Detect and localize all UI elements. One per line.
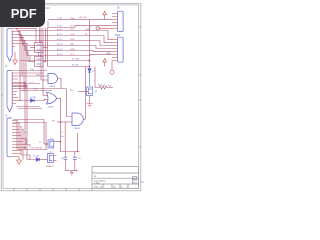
svg-text:A_D1: A_D1 [57, 33, 63, 36]
svg-text:A_D3: A_D3 [57, 43, 63, 46]
svg-text:TDO: TDO [70, 29, 75, 31]
wire top net to J8 pin3 [48, 18, 112, 20]
svg-text:R14 1k: R14 1k [98, 85, 106, 87]
connector J8 pin stubs [112, 14, 118, 29]
sheet border zone ticks bottom [14, 188, 92, 191]
transistor Q2 base wire [40, 159, 48, 161]
sheet border inner frame [3, 5, 139, 188]
component Y1 internals [37, 45, 42, 50]
vertical bus drop E [47, 21, 49, 28]
svg-text:,: , [94, 171, 95, 173]
ground GND3 under caps [70, 172, 74, 175]
svg-text:TCK: TCK [70, 34, 75, 36]
wire second top net [48, 25, 112, 27]
wire ground stub [71, 171, 73, 173]
svg-text:5_30: 5_30 [57, 18, 63, 20]
svg-text:Q5: Q5 [94, 91, 98, 93]
gate U2A (AND) [48, 74, 58, 84]
bus wire W2 [19, 36, 112, 43]
svg-text:A4: A4 [141, 181, 145, 184]
wire cap rail top [61, 151, 80, 153]
svg-text:VCC: VCC [70, 54, 75, 56]
svg-text:C5: C5 [60, 158, 64, 160]
svg-text:TDI: TDI [70, 26, 74, 28]
junction dot Q1 collector [60, 141, 61, 142]
capacitor C6 [73, 157, 77, 159]
wire gate1 input1 [22, 75, 48, 77]
svg-text:RX: RX [108, 86, 112, 88]
capacitor C5 [63, 157, 67, 159]
labels bus wires maroon [70, 29, 91, 56]
svg-text:U10: U10 [46, 8, 51, 10]
wire gate2 in1 feed [43, 95, 44, 97]
connector J2 pin stubs [12, 73, 27, 104]
junction dot cap rail [77, 151, 78, 152]
wire Y1-Y2 link [38, 53, 40, 57]
node NC circle on J8 pin6 [96, 27, 112, 30]
svg-text:File: sch: File: sch [94, 187, 103, 189]
connector J3 pin stubs [12, 121, 30, 157]
wire under badge y28.3 [16, 27, 36, 29]
wire net y106 row [16, 106, 40, 108]
PDF badge overlay [0, 0, 45, 27]
MOSFET Q3 gate wire [78, 91, 86, 93]
resistor R14 [95, 67, 113, 90]
wire row y73 [17, 72, 44, 74]
svg-text:J8: J8 [117, 8, 120, 10]
svg-text:1 Doc: 1 Doc [94, 183, 101, 185]
svg-text:D 330: D 330 [30, 97, 37, 99]
wire J3 branch 1 [25, 139, 27, 145]
ground under J3 [17, 157, 22, 165]
transistor Q2 [48, 154, 54, 163]
vertical net line x20 [19, 31, 21, 101]
vertical bus drop D [42, 28, 44, 96]
svg-text:D1: D1 [93, 71, 97, 73]
junction squares J1 pins [16, 28, 27, 44]
svg-text:A_D4: A_D4 [57, 48, 63, 51]
vertical bus drop G [47, 28, 49, 67]
wire vertical to cap rail right [77, 133, 79, 152]
component Y1 box [30, 43, 48, 53]
svg-text:A_D2: A_D2 [57, 38, 63, 41]
capacitor C5 leads [64, 152, 66, 171]
svg-text:GND: GND [106, 53, 111, 55]
svg-text:5_30: 5_30 [57, 26, 63, 28]
wire J3 comb v3 [21, 127, 30, 160]
wire LED net y90.5 [20, 90, 52, 92]
vertical net line x22 [21, 36, 23, 77]
power flag VCC1 [103, 11, 107, 19]
diode D4 (vertical) [88, 69, 91, 87]
gate U2C (AND big) [72, 113, 83, 126]
svg-text:GND: GND [70, 49, 75, 51]
title block text rows [94, 171, 138, 189]
diode D2 [36, 158, 40, 162]
svg-text:74F08: 74F08 [48, 106, 55, 108]
vertical net line x24 [23, 41, 25, 91]
svg-text:TMS: TMS [70, 18, 75, 20]
svg-text:D 10R: D 10R [33, 155, 40, 157]
wire row y83.5 [12, 83, 40, 85]
transistor Q1 base wire [44, 143, 48, 145]
vertical net line x28 [27, 51, 29, 62]
vertical net line x26 [25, 46, 27, 89]
wire J3 net y144.5 [29, 145, 31, 148]
svg-text:RX: RX [70, 90, 74, 92]
sheet border outer frame [1, 3, 141, 191]
vertical net x25 to J3 zone [24, 83, 26, 150]
wire Q3 source down [89, 96, 91, 104]
connector J1 (left top header) [7, 29, 12, 62]
wire J3 comb v4 [22, 130, 24, 160]
svg-text:MMBT2: MMBT2 [46, 166, 54, 168]
vertical net x27 to diode wire [27, 86, 36, 160]
svg-text:C7: C7 [60, 132, 64, 134]
gate U2B input stubs [44, 96, 48, 100]
bus wire W1 [17, 31, 112, 40]
gate U2B (OR) [47, 93, 57, 105]
wire cap rail bottom [65, 170, 77, 172]
svg-text:5V_IN: 5V_IN [72, 65, 78, 67]
connector J3 (left bottom header) [7, 118, 12, 157]
wire mid net y60.5 [20, 60, 90, 62]
gate U2A output wire [58, 79, 61, 89]
connector J7 JTAG (right second header) [118, 37, 124, 62]
connector J7 pin stubs [112, 40, 118, 61]
wire net y108.5 row [18, 108, 42, 110]
svg-text:5_30: 5_30 [33, 89, 39, 91]
bus wire W3 [21, 41, 112, 46]
svg-text:74F08: 74F08 [49, 86, 56, 88]
svg-text:5V_EN: 5V_EN [72, 59, 79, 61]
title block outline [92, 167, 139, 189]
wire J3 row2 riser [13, 123, 46, 150]
svg-text:10n: 10n [60, 136, 64, 138]
MOSFET Q3 [86, 87, 92, 95]
svg-text:TX: TX [39, 142, 42, 144]
junction dot A [89, 60, 91, 62]
vertical net line x30 [29, 56, 31, 61]
wire J1 fan jogs [17, 29, 27, 56]
svg-text:A_D0: A_D0 [57, 28, 63, 31]
wire long net y88.5 [20, 88, 66, 90]
wire mid net y66.5 [48, 66, 90, 68]
wire gate1 input2 [41, 79, 48, 81]
connector J1 pin stubs [12, 29, 27, 47]
ground GND2 under Q3 [87, 104, 93, 107]
LED D3 [31, 99, 35, 103]
svg-text:J1: J1 [5, 66, 8, 68]
vertical bus drop F [45, 28, 47, 62]
svg-text:TRS: TRS [70, 39, 75, 41]
wire row y86.5 [12, 86, 27, 88]
wire LED net y100.5 [20, 100, 46, 101]
connector J8 (right top header) [118, 11, 124, 31]
wire net to gate U2C in2 [57, 121, 72, 123]
component Y2 internals [37, 59, 42, 64]
wire row y70.5 [12, 70, 47, 72]
junction dot C [24, 147, 26, 149]
gate U2B output wire [57, 98, 61, 152]
wire J3 comb v2 [18, 124, 20, 150]
junction dot gate3 feed [60, 121, 61, 122]
wire J3 row1 riser [13, 120, 44, 145]
svg-text:100_0R: 100_0R [79, 17, 87, 19]
transistor Q2 right stubs [54, 156, 57, 161]
vertical net x65 to cap rail [64, 122, 66, 152]
svg-text:A_D5: A_D5 [57, 53, 63, 56]
junction square Y2 pin [45, 61, 46, 62]
sheet border zone ticks sides [1, 27, 141, 147]
svg-text:74F08: 74F08 [74, 128, 81, 130]
component Y2 box [28, 57, 46, 67]
transistor Q1 [48, 140, 54, 148]
labels bus wires blue [57, 28, 63, 56]
vertical feed to MOSFET x89.5 [89, 19, 91, 68]
wire Q1 collector right [54, 141, 61, 143]
vertical bus drop B [39, 28, 41, 43]
capacitor C6 leads [74, 152, 76, 171]
junction dot Q1 base [46, 143, 47, 144]
svg-text:JTAG: JTAG [115, 34, 121, 37]
junction dot B [89, 66, 91, 68]
ground under J1 area [13, 52, 18, 65]
svg-text:RX_FLOW: RX_FLOW [32, 147, 44, 149]
junction squares J3 pins [16, 120, 25, 133]
svg-text:J2: J2 [5, 116, 8, 118]
svg-text:RX: RX [52, 120, 56, 122]
svg-text:C6: C6 [78, 158, 82, 160]
bus wire W6 [27, 54, 112, 55]
wire J3 comb v1 [17, 121, 48, 150]
bus wire W5 [25, 50, 112, 53]
vertical bus drop C [40, 28, 42, 80]
gate U2C output wire [84, 67, 86, 120]
power port circle P1 [110, 60, 114, 74]
gate U2C input wires [67, 89, 73, 117]
connector J2 (left middle header) [7, 71, 12, 112]
junction squares J2 pins [19, 82, 27, 101]
junction dot cap rail bottom [76, 170, 77, 171]
power flag VCC2 [103, 59, 107, 67]
vertical bus drop A (from badge) [35, 28, 37, 43]
bus wire W4 [23, 46, 112, 49]
svg-text:RST: RST [70, 44, 75, 46]
